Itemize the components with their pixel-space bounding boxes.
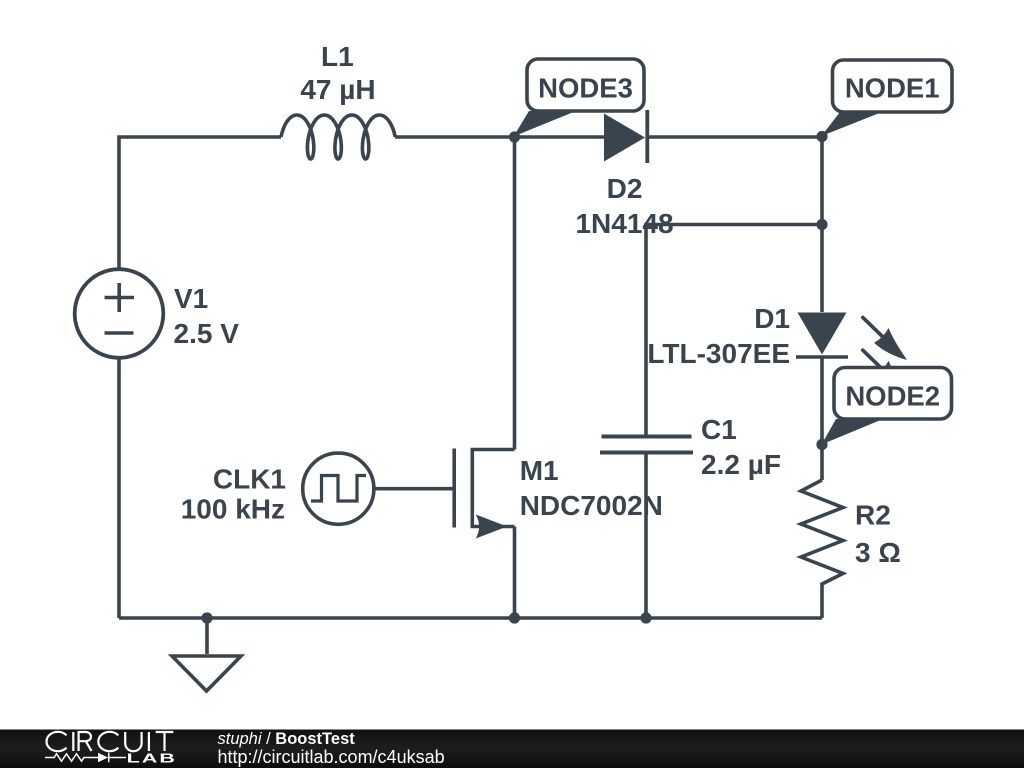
callout NODE1 tail (822, 112, 883, 136)
callout NODE1 box (833, 60, 953, 112)
node dot NODE3 junction (509, 131, 520, 142)
svg-text:D2: D2 (607, 173, 643, 204)
logo squiggle diode (98, 753, 108, 763)
svg-text:3 Ω: 3 Ω (855, 537, 901, 568)
wire bottom rail (119, 616, 822, 620)
wire node3 to diode anode (515, 135, 605, 139)
wire CLK1 to gate (375, 487, 454, 491)
capacitor C1 bottom plate (600, 451, 693, 455)
node dot C1 branch junction (816, 219, 827, 230)
wire left rail bottom: V1 to bottom rail (117, 358, 121, 618)
svg-text:LTL-307EE: LTL-307EE (647, 338, 790, 369)
svg-text:CLK1: CLK1 (213, 464, 286, 495)
logo CIRCUIT lettering (47, 732, 174, 751)
ground symbol triangle (172, 656, 241, 691)
svg-text:NODE3: NODE3 (538, 73, 633, 104)
voltage source V1 circle (75, 269, 164, 358)
node dot C1 bottom on bottom rail (640, 612, 651, 623)
svg-text:stuphi / BoostTest: stuphi / BoostTest (218, 730, 356, 748)
MOSFET M1 (454, 449, 514, 528)
wire left rail top: V1 to top-left corner to inductor (119, 137, 281, 269)
diode D2 cathode bar (645, 110, 649, 163)
callout NODE3 tail (514, 111, 577, 137)
resistor R2 zigzag (801, 480, 843, 618)
wire diode cathode to node1 corner, down to LED (649, 137, 822, 312)
ground stub (205, 618, 209, 654)
svg-text:47 µH: 47 µH (300, 74, 375, 105)
callout NODE2 tail (822, 419, 884, 445)
svg-text:http://circuitlab.com/c4uksab: http://circuitlab.com/c4uksab (218, 747, 445, 767)
svg-text:D1: D1 (754, 303, 790, 334)
wire node1 branch y224 to C1 top (646, 225, 822, 435)
clock source CLK1 circle (303, 453, 374, 524)
svg-text:M1: M1 (520, 455, 559, 486)
svg-text:NODE2: NODE2 (845, 381, 940, 412)
logo squiggle resistor (45, 754, 98, 761)
LED D1 emission arrow 1 (863, 317, 907, 360)
node dot NODE1 corner (816, 131, 827, 142)
svg-text:C1: C1 (701, 414, 737, 445)
node dot NODE2 (816, 439, 827, 450)
svg-text:1N4148: 1N4148 (575, 208, 673, 239)
LED D1 emission arrow 2 (863, 350, 907, 393)
wire C1 bottom to bottom rail (644, 455, 648, 619)
callout NODE2 box (834, 368, 952, 420)
svg-text:V1: V1 (174, 283, 208, 314)
wire LED cathode to node2 to R2 (820, 357, 824, 480)
svg-text:R2: R2 (855, 500, 891, 531)
wire MOSFET source down to bottom rail (513, 527, 517, 619)
inductor L1 coil (281, 115, 395, 159)
M1 channel bar and drain/source legs (472, 450, 514, 527)
wire MOSFET drain up to node3 (513, 137, 517, 450)
V1 plus sign (105, 283, 135, 333)
M1 source arrow (476, 515, 507, 539)
wire inductor to node3 (395, 135, 515, 139)
svg-text:NDC7002N: NDC7002N (520, 490, 663, 521)
M1 gate bar (452, 449, 456, 528)
CLK1 square wave glyph (311, 476, 366, 502)
svg-text:LAB: LAB (127, 751, 177, 766)
diode D2 triangle (604, 114, 645, 162)
svg-text:100 kHz: 100 kHz (181, 494, 285, 525)
V1 minus sign (105, 331, 134, 335)
svg-text:NODE1: NODE1 (845, 73, 940, 104)
svg-text:L1: L1 (321, 41, 354, 72)
callout NODE3 box (527, 59, 644, 111)
capacitor C1 top plate (602, 435, 692, 439)
node dot ground junction (201, 612, 212, 623)
LED D1 triangle (798, 313, 847, 355)
svg-text:2.2 µF: 2.2 µF (701, 449, 781, 480)
logo LAB text (127, 751, 177, 766)
LED D1 cathode bar (796, 355, 848, 359)
node dot MOSFET source on bottom rail (509, 612, 520, 623)
svg-text:2.5 V: 2.5 V (174, 318, 240, 349)
